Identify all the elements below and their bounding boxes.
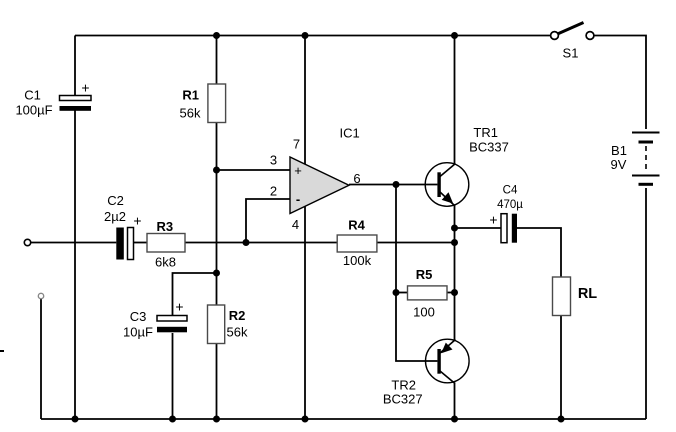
svg-text:C2: C2 — [107, 193, 124, 208]
svg-text:100: 100 — [413, 305, 435, 320]
svg-text:S1: S1 — [563, 46, 579, 61]
svg-text:C3: C3 — [130, 309, 147, 324]
svg-text:TR2: TR2 — [391, 378, 416, 393]
svg-text:B1: B1 — [611, 143, 627, 158]
svg-text:R5: R5 — [416, 267, 433, 282]
svg-text:R1: R1 — [182, 88, 199, 103]
svg-text:TR1: TR1 — [473, 125, 498, 140]
svg-text:R3: R3 — [156, 219, 173, 234]
svg-text:2µ2: 2µ2 — [104, 209, 126, 224]
svg-text:R2: R2 — [229, 308, 246, 323]
svg-text:100k: 100k — [343, 253, 372, 268]
svg-text:2: 2 — [270, 184, 277, 199]
svg-text:+: + — [81, 80, 89, 96]
svg-text:470µ: 470µ — [497, 199, 523, 211]
svg-text:7: 7 — [293, 137, 300, 152]
svg-text:6: 6 — [353, 171, 360, 186]
svg-text:BC337: BC337 — [469, 140, 509, 155]
svg-text:-: - — [296, 192, 300, 207]
svg-text:R4: R4 — [348, 218, 365, 233]
svg-text:10µF: 10µF — [123, 325, 153, 340]
svg-text:100µF: 100µF — [15, 103, 52, 118]
svg-text:C4: C4 — [503, 185, 518, 197]
svg-text:IC1: IC1 — [339, 126, 359, 141]
svg-text:3: 3 — [270, 153, 277, 168]
svg-text:+: + — [175, 299, 183, 315]
svg-text:C1: C1 — [24, 88, 41, 103]
svg-text:RL: RL — [578, 286, 597, 302]
svg-text:+: + — [133, 213, 141, 229]
svg-text:9V: 9V — [611, 157, 627, 172]
svg-text:BC327: BC327 — [383, 392, 423, 407]
svg-text:56k: 56k — [227, 325, 248, 340]
svg-text:4: 4 — [292, 217, 299, 232]
svg-text:+: + — [294, 163, 302, 178]
svg-text:56k: 56k — [180, 106, 201, 121]
svg-text:6k8: 6k8 — [155, 255, 176, 270]
svg-text:+: + — [489, 212, 497, 228]
